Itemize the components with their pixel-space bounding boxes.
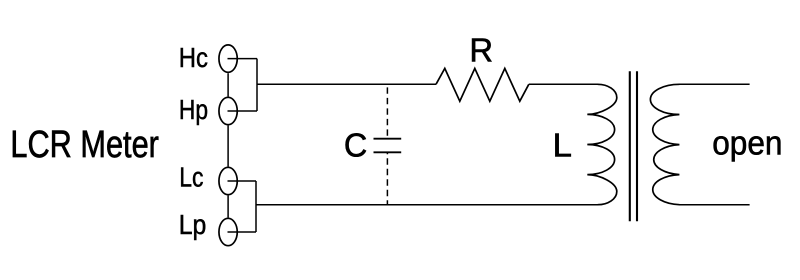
wire top rail right segment bbox=[529, 83, 598, 85]
svg-text:C: C bbox=[344, 128, 367, 165]
capacitor C dashed lead top bbox=[386, 84, 388, 138]
capacitor C bottom plate bbox=[374, 151, 402, 153]
svg-text:open: open bbox=[712, 124, 782, 162]
terminal Hc bbox=[219, 45, 237, 72]
wire L junction vertical bbox=[255, 181, 257, 232]
wire bottom rail bbox=[256, 204, 598, 206]
wire Lc-Lp vertical link bbox=[227, 196, 229, 218]
wire Hp-Lc vertical link bbox=[227, 126, 229, 167]
resistor R bbox=[436, 68, 529, 101]
inductor L primary winding bbox=[587, 84, 617, 204]
svg-text:Hc: Hc bbox=[179, 42, 208, 73]
svg-text:Hp: Hp bbox=[179, 94, 208, 125]
svg-text:Lc: Lc bbox=[179, 162, 203, 193]
wire Hp to junction bbox=[228, 110, 258, 112]
wire Hc-Hp vertical link bbox=[227, 73, 229, 96]
wire Hc to junction bbox=[228, 58, 258, 60]
capacitor C top plate bbox=[374, 138, 402, 140]
terminal Hp bbox=[219, 97, 237, 124]
wire secondary top bbox=[679, 83, 750, 85]
svg-text:Lp: Lp bbox=[179, 209, 207, 240]
svg-text:R: R bbox=[469, 31, 493, 68]
terminal Lp bbox=[219, 218, 237, 245]
wire H junction vertical bbox=[256, 59, 258, 111]
transformer core line right bbox=[636, 71, 638, 221]
wire secondary bottom bbox=[679, 204, 750, 206]
terminal Lc bbox=[219, 167, 237, 194]
wire top rail left segment bbox=[257, 83, 436, 85]
secondary winding bbox=[650, 84, 679, 204]
wire Lc to junction bbox=[228, 180, 257, 182]
transformer core line left bbox=[629, 71, 631, 221]
capacitor C dashed lead bottom bbox=[386, 152, 388, 204]
svg-text:LCR Meter: LCR Meter bbox=[10, 123, 159, 166]
wire Lp to junction bbox=[228, 231, 257, 233]
svg-text:L: L bbox=[553, 128, 573, 165]
